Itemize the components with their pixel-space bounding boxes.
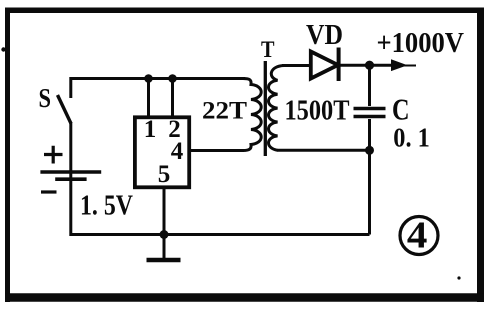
svg-text:VD: VD bbox=[306, 20, 343, 51]
svg-text:4: 4 bbox=[407, 215, 428, 257]
svg-text:1500T: 1500T bbox=[285, 95, 350, 127]
svg-text:S: S bbox=[39, 83, 52, 113]
svg-text:T: T bbox=[261, 37, 275, 62]
svg-text:1. 5V: 1. 5V bbox=[80, 191, 133, 222]
svg-text:1: 1 bbox=[144, 116, 157, 143]
svg-text:5: 5 bbox=[158, 161, 171, 188]
svg-text:0. 1: 0. 1 bbox=[393, 123, 430, 153]
svg-text:+1000V: +1000V bbox=[377, 28, 465, 59]
svg-text:C: C bbox=[392, 92, 410, 127]
svg-text:4: 4 bbox=[171, 138, 184, 165]
svg-text:22T: 22T bbox=[202, 98, 247, 125]
